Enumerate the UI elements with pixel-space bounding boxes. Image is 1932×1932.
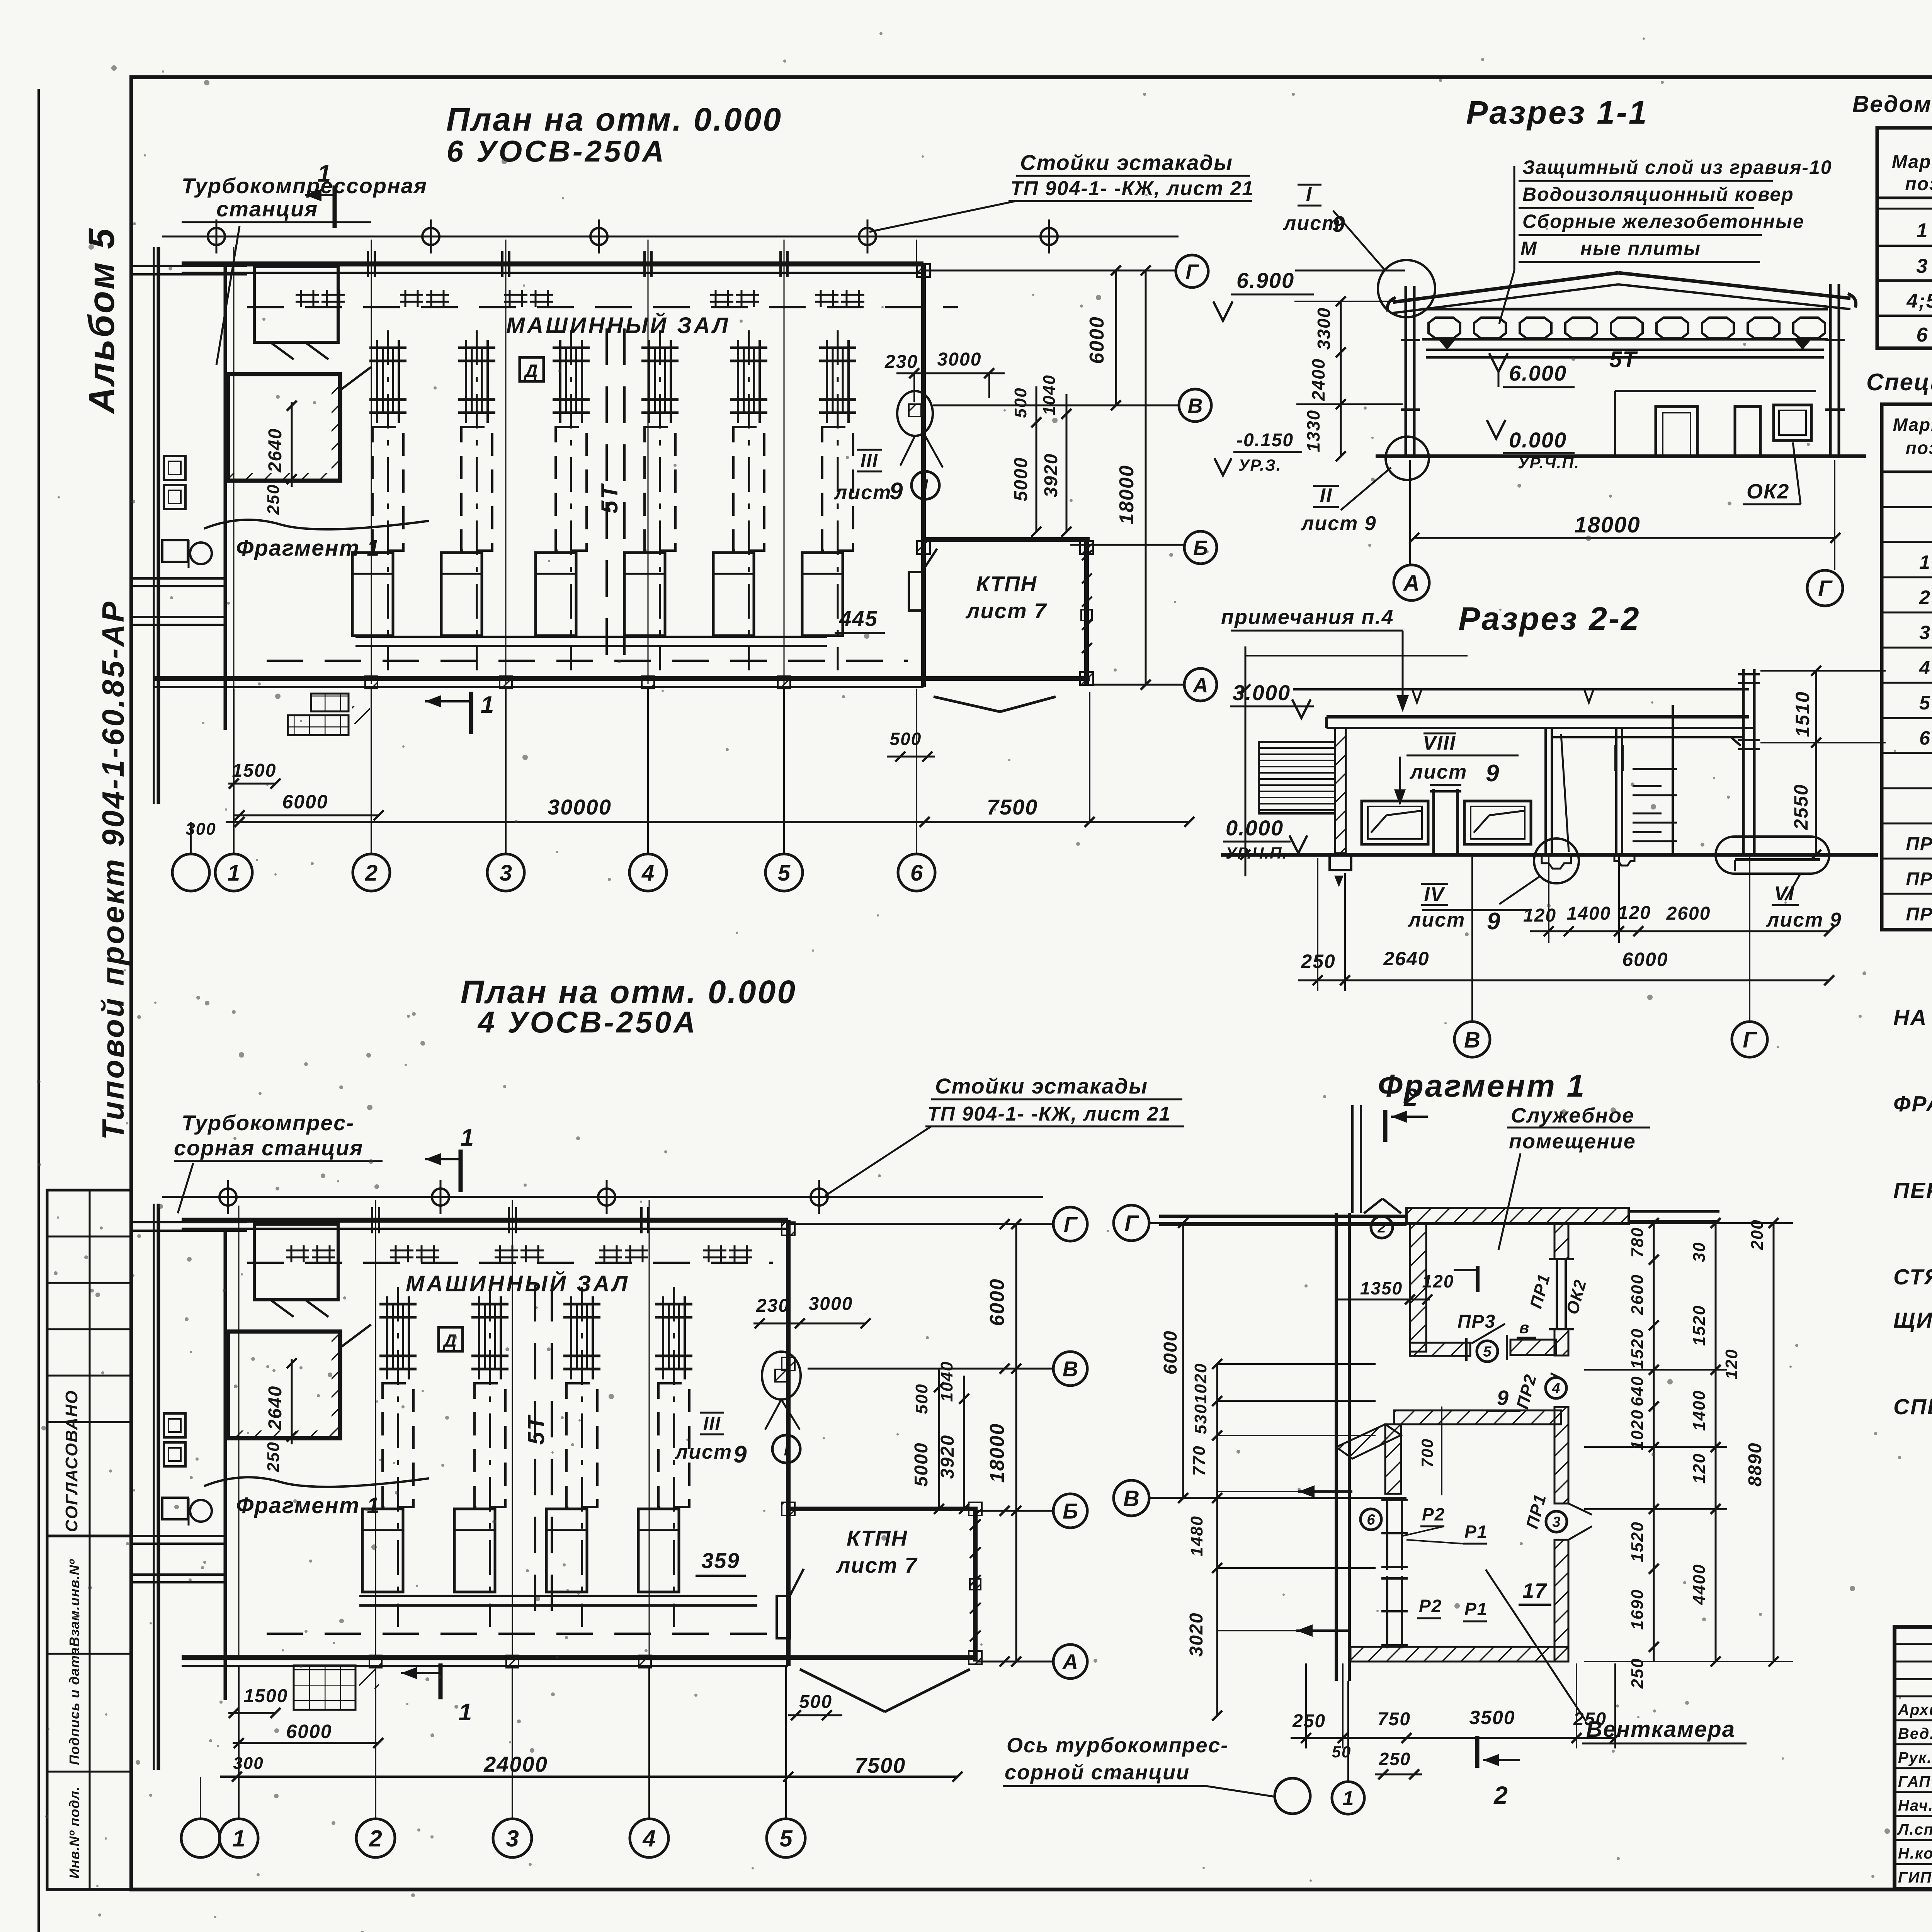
svg-text:СПЕЦИФИКАЦИИ НА ЛИСТЕ 5.: СПЕЦИФИКАЦИИ НА ЛИСТЕ 5. — [1893, 1395, 1932, 1419]
svg-text:5000: 5000 — [911, 1442, 932, 1487]
svg-text:1500: 1500 — [244, 1686, 288, 1706]
foundation strip — [359, 1595, 757, 1597]
svg-text:1520: 1520 — [1690, 1305, 1709, 1346]
louver grille — [1259, 742, 1335, 813]
lower room bottom wall — [1350, 1647, 1568, 1662]
svg-text:1: 1 — [1917, 219, 1929, 242]
svg-text:Архит.: Архит. — [1898, 1701, 1932, 1718]
hash marks row — [300, 290, 302, 307]
svg-text:ЩИНОЙ 20 ММ.: ЩИНОЙ 20 ММ. — [1893, 1307, 1932, 1333]
svg-text:3: 3 — [500, 861, 512, 886]
svg-text:Г: Г — [1064, 1212, 1078, 1236]
svg-text:3: 3 — [1917, 255, 1929, 277]
hall right wall — [921, 264, 926, 687]
svg-text:сорная станция: сорная станция — [174, 1136, 363, 1160]
svg-text:лист: лист — [833, 481, 891, 504]
svg-text:1: 1 — [459, 1699, 473, 1726]
svg-text:Л.спец.Т.О.: Л.спец.Т.О. — [1897, 1821, 1932, 1838]
trestle column — [598, 1189, 615, 1206]
signature row — [1895, 1863, 1932, 1865]
svg-text:лист: лист — [1282, 212, 1340, 235]
svg-text:359: 359 — [701, 1548, 740, 1573]
svg-text:2600: 2600 — [1628, 1274, 1647, 1315]
svg-text:1040: 1040 — [937, 1361, 956, 1402]
svg-text:Фрагмент 1: Фрагмент 1 — [236, 1493, 380, 1518]
girder opening — [1748, 318, 1779, 338]
svg-text:поз.: поз. — [1906, 438, 1932, 458]
svg-text:А: А — [1192, 673, 1208, 697]
roof slab — [1327, 715, 1749, 719]
svg-text:120: 120 — [1422, 1271, 1454, 1291]
crane beam — [1426, 349, 1824, 351]
svg-text:КТПН: КТПН — [976, 571, 1037, 596]
machine unit — [397, 1287, 399, 1627]
svg-text:ПР2: ПР2 — [1906, 869, 1932, 889]
svg-text:5: 5 — [778, 861, 791, 886]
svg-text:6.900: 6.900 — [1236, 268, 1294, 293]
interior partition top — [1615, 390, 1816, 392]
lower room top-left diagonal wall — [1336, 1424, 1401, 1459]
paper edge left line — [37, 89, 40, 1932]
left wall (fragment) — [1335, 1213, 1338, 1681]
svg-text:УР.Ч.П.: УР.Ч.П. — [1518, 454, 1580, 472]
svg-text:9: 9 — [1486, 760, 1500, 787]
svg-text:17: 17 — [1522, 1579, 1548, 1602]
trestle column — [208, 228, 225, 245]
svg-text:Стойки эстакады: Стойки эстакады — [1020, 150, 1233, 175]
svg-text:6000: 6000 — [282, 791, 328, 813]
svg-text:18000: 18000 — [986, 1423, 1009, 1483]
svg-text:лист 9: лист 9 — [1765, 909, 1842, 931]
svg-text:В: В — [1464, 1027, 1480, 1053]
extension lines right — [1584, 1222, 1793, 1224]
svg-text:СТЯЖКУ ИЗ ЦЕМЕНТНО-ПЕСЧАНОГО: СТЯЖКУ ИЗ ЦЕМЕНТНО-ПЕСЧАНОГО РАСТВОРА МА… — [1893, 1265, 1932, 1289]
svg-text:Р1: Р1 — [1464, 1599, 1488, 1619]
svg-text:500: 500 — [799, 1692, 832, 1712]
svg-text:лист 9: лист 9 — [1300, 512, 1377, 535]
svg-text:М: М — [1520, 238, 1537, 259]
bottom margin table — [47, 1536, 131, 1889]
grid bubbles right (top plan) — [1176, 255, 1208, 287]
wc fixtures — [162, 1498, 188, 1519]
grid line Г (fragment) — [1150, 1222, 1719, 1224]
svg-text:4: 4 — [1919, 657, 1931, 679]
doors and window OK2 — [1656, 406, 1697, 456]
machine unit — [659, 330, 661, 670]
svg-text:1: 1 — [461, 1124, 474, 1151]
svg-text:ПЕРЕГОРОДКАХ ДАНА НА ЛИСТЕ: ПЕРЕГОРОДКАХ ДАНА НА ЛИСТЕ 9. — [1893, 1178, 1932, 1203]
roof slopes — [1393, 273, 1618, 302]
annex upper room — [254, 267, 338, 342]
svg-text:IV: IV — [1424, 883, 1445, 906]
steel frames P2 P1 lower pair — [1386, 1576, 1388, 1648]
note leader — [1514, 166, 1515, 270]
svg-text:445: 445 — [839, 606, 878, 631]
svg-text:3300: 3300 — [1314, 307, 1334, 350]
top wall (fragment) — [1406, 1208, 1629, 1224]
title block outer — [1895, 1627, 1932, 1889]
svg-text:ные плиты: ные плиты — [1580, 238, 1701, 259]
grid bubbles right (bottom plan) — [1053, 1207, 1087, 1241]
fragment brace (top plan) — [204, 520, 429, 529]
svg-text:3: 3 — [506, 1826, 519, 1852]
window W1 — [1362, 801, 1428, 844]
hall dashed line — [247, 1262, 773, 1264]
svg-text:1: 1 — [232, 1826, 245, 1852]
eaves — [1388, 298, 1396, 311]
right dim chain inner — [1653, 1223, 1655, 1662]
svg-text:поз: поз — [1905, 174, 1932, 194]
upper room bottom wall left — [1410, 1343, 1470, 1356]
axis bubble (оси) — [1275, 1778, 1310, 1814]
svg-text:2: 2 — [1377, 1220, 1386, 1236]
upper room left wall — [1410, 1224, 1426, 1352]
top wall (bottom plan) — [182, 1218, 788, 1223]
svg-text:1350: 1350 — [1360, 1278, 1403, 1298]
svg-text:Водоизоляционный ковер: Водоизоляционный ковер — [1522, 184, 1794, 205]
wc fixtures — [162, 540, 188, 562]
left hatched wall — [1335, 728, 1346, 853]
girder opening — [1793, 318, 1825, 338]
trestle column — [219, 1189, 236, 1206]
svg-text:Г: Г — [1185, 260, 1199, 283]
annex mid wall (bottom plan) — [224, 1231, 227, 1700]
svg-text:Н.контр.: Н.контр. — [1898, 1845, 1932, 1862]
left dim chain (fragment) — [1216, 1364, 1218, 1716]
svg-text:Сборные железобетонные: Сборные железобетонные — [1522, 211, 1804, 232]
section flag 2 bottom — [1475, 1736, 1480, 1768]
svg-text:I: I — [1306, 183, 1312, 206]
svg-text:ГАП: ГАП — [1898, 1773, 1931, 1790]
svg-text:ТП 904-1- -КЖ, лист 21: ТП 904-1- -КЖ, лист 21 — [927, 1103, 1171, 1125]
right dim chain 1510 2550 — [1815, 671, 1817, 855]
grid line Б — [978, 1510, 1053, 1512]
svg-text:VIII: VIII — [1423, 732, 1456, 754]
svg-text:Служебное: Служебное — [1511, 1104, 1634, 1127]
grid bubble Г — [1834, 538, 1835, 570]
svg-text:примечания п.4: примечания п.4 — [1221, 605, 1394, 629]
svg-text:3: 3 — [1552, 1514, 1560, 1531]
svg-text:0.000: 0.000 — [1509, 428, 1567, 452]
svg-text:1480: 1480 — [1187, 1515, 1206, 1556]
signature row — [1895, 1743, 1932, 1745]
KTPN right wall hatch ticks (bottom) — [970, 1519, 981, 1530]
annex fixtures — [164, 456, 185, 480]
annex hatched room — [228, 374, 340, 481]
svg-text:30000: 30000 — [548, 795, 612, 819]
title block signature grid — [1895, 1643, 1932, 1645]
right wall parapet — [1742, 669, 1745, 853]
extension verticals to bubbles (bottom plan) — [238, 1667, 240, 1818]
svg-text:Рук.гр.: Рук.гр. — [1898, 1749, 1932, 1766]
machine unit — [837, 330, 839, 670]
svg-text:сорной станции: сорной станции — [1005, 1761, 1190, 1784]
svg-text:6: 6 — [1367, 1512, 1375, 1528]
grid line Г (bottom plan) — [788, 1223, 1053, 1225]
svg-text:5Т: 5Т — [1609, 347, 1638, 372]
detail balloon on B row (bottom plan) — [762, 1352, 801, 1400]
column bubbles (top plan) — [172, 854, 209, 891]
svg-text:6.000: 6.000 — [1509, 361, 1567, 385]
svg-text:2: 2 — [369, 1826, 382, 1852]
svg-text:3920: 3920 — [1041, 453, 1061, 498]
svg-text:МАШИННЫЙ ЗАЛ: МАШИННЫЙ ЗАЛ — [406, 1271, 630, 1296]
annex hatched room — [228, 1332, 340, 1438]
svg-text:1020: 1020 — [1628, 1409, 1647, 1450]
svg-text:ПР3: ПР3 — [1906, 904, 1932, 925]
svg-text:120: 120 — [1722, 1349, 1741, 1379]
signature row — [1895, 1815, 1932, 1817]
left annex corridor lines — [131, 265, 247, 267]
svg-text:5000: 5000 — [1011, 457, 1031, 502]
svg-text:250: 250 — [1379, 1749, 1411, 1769]
svg-text:1400: 1400 — [1567, 903, 1611, 924]
signature row — [1895, 1791, 1932, 1793]
svg-text:Р1: Р1 — [1464, 1522, 1488, 1542]
svg-text:9: 9 — [889, 478, 903, 505]
girder opening — [1611, 318, 1643, 338]
girder opening — [1565, 318, 1597, 338]
svg-text:24000: 24000 — [483, 1752, 548, 1776]
partition 2 — [1615, 728, 1617, 853]
extension verticals to bubbles — [233, 689, 235, 854]
stair hatch block — [311, 694, 349, 711]
lower room right wall lower part — [1554, 1540, 1568, 1662]
leader венткамера — [1486, 1570, 1586, 1721]
hall dashed service line — [247, 306, 958, 308]
svg-text:3920: 3920 — [937, 1435, 958, 1479]
svg-text:770: 770 — [1190, 1445, 1209, 1476]
svg-text:ГИП: ГИП — [1898, 1869, 1932, 1886]
partition 120 — [1544, 728, 1547, 853]
section flag 1 bottom (top plan) — [469, 692, 473, 734]
svg-text:лист: лист — [674, 1441, 732, 1463]
section flag 1 bottom (bottom plan) — [439, 1663, 443, 1699]
svg-text:СОГЛАСОВАНО: СОГЛАСОВАНО — [62, 1390, 81, 1532]
svg-text:6: 6 — [910, 861, 923, 886]
grid bubble Г (2-2) — [1749, 857, 1750, 1021]
svg-text:3020: 3020 — [1186, 1612, 1207, 1657]
svg-text:1500: 1500 — [232, 760, 277, 781]
machine unit — [476, 330, 478, 670]
column axis lines (top plan) — [371, 240, 372, 684]
right dim chain middle — [1715, 1223, 1717, 1662]
window W2 — [1464, 801, 1531, 844]
svg-text:250: 250 — [1292, 1711, 1326, 1731]
svg-text:1330: 1330 — [1303, 410, 1323, 452]
svg-text:лист: лист — [1409, 761, 1467, 783]
right dim chain 6000/18000 — [1115, 270, 1117, 405]
svg-text:1690: 1690 — [1628, 1589, 1647, 1630]
foundation strip — [355, 636, 827, 638]
girder opening — [1702, 318, 1734, 338]
svg-text:1040: 1040 — [1040, 374, 1059, 415]
svg-text:6000: 6000 — [1160, 1330, 1181, 1375]
left extension line — [1245, 646, 1247, 876]
signature row — [1895, 1719, 1932, 1721]
girder opening — [1429, 318, 1460, 338]
column bubbles (bottom plan) — [181, 1819, 220, 1857]
door — [1432, 789, 1435, 853]
svg-text:УР.З.: УР.З. — [1238, 456, 1282, 474]
crane rail dashed 5T — [605, 328, 608, 676]
svg-text:1: 1 — [318, 160, 332, 187]
girder opening — [1474, 318, 1506, 338]
svg-text:700: 700 — [1418, 1438, 1436, 1468]
circled I (bottom plan) — [772, 1435, 800, 1463]
svg-text:230: 230 — [756, 1296, 789, 1316]
symbol Д — [439, 1327, 463, 1351]
svg-text:250: 250 — [264, 484, 283, 515]
svg-text:2550: 2550 — [1790, 784, 1812, 830]
svg-text:Защитный слой из гравия-10: Защитный слой из гравия-10 — [1522, 156, 1832, 178]
pipe above wall — [1351, 1105, 1354, 1213]
svg-text:1520: 1520 — [1628, 1521, 1647, 1562]
svg-text:5: 5 — [1919, 692, 1931, 714]
svg-text:Марка: Марка — [1892, 152, 1932, 172]
svg-text:2640: 2640 — [1383, 948, 1429, 969]
svg-text:II: II — [1320, 485, 1333, 507]
svg-text:ПР1: ПР1 — [1906, 834, 1932, 854]
svg-text:4: 4 — [642, 1826, 655, 1852]
svg-text:Д: Д — [442, 1330, 457, 1350]
svg-text:6000: 6000 — [1086, 316, 1108, 364]
bottom wall row A — [155, 676, 923, 681]
svg-text:4: 4 — [641, 861, 654, 886]
svg-text:3000: 3000 — [809, 1294, 853, 1314]
column bubble 2 with gable — [1364, 1199, 1383, 1213]
trestle column — [422, 228, 439, 245]
detail circle II — [1386, 437, 1429, 480]
svg-text:0.000: 0.000 — [1226, 816, 1284, 840]
trestle column — [1041, 228, 1058, 245]
section mark 2 small — [1476, 1266, 1480, 1292]
svg-text:Ведомость проемов ворот и д: Ведомость проемов ворот и дверей — [1852, 91, 1932, 117]
svg-text:6000: 6000 — [286, 1721, 332, 1742]
parapet top line — [1293, 688, 1749, 690]
KTPN door — [909, 572, 922, 611]
left column — [1405, 286, 1407, 458]
annex corridor lines — [131, 1221, 247, 1223]
hall right wall (bottom plan) — [786, 1220, 791, 1666]
svg-text:5: 5 — [1483, 1344, 1492, 1360]
machine unit — [748, 330, 750, 670]
hall dashed line bottom — [267, 660, 908, 662]
svg-text:Подпись и дата: Подпись и дата — [66, 1647, 82, 1765]
annex mid wall — [224, 267, 227, 730]
floor line — [1221, 853, 1878, 857]
svg-text:Г: Г — [1124, 1211, 1139, 1236]
svg-text:Инв.Nº подл.: Инв.Nº подл. — [66, 1786, 82, 1879]
trestle column — [590, 228, 607, 245]
svg-text:Типовой проект 904-1-60.85-А: Типовой проект 904-1-60.85-АР — [96, 600, 130, 1140]
svg-text:ТП 904-1- -КЖ, лист 21: ТП 904-1- -КЖ, лист 21 — [1010, 177, 1254, 200]
svg-text:1520: 1520 — [1628, 1328, 1647, 1369]
trestle column — [432, 1189, 449, 1206]
svg-text:120: 120 — [1618, 903, 1651, 923]
annex fixtures — [164, 1413, 185, 1437]
svg-text:500: 500 — [912, 1383, 931, 1414]
svg-text:6 УОСВ-250А: 6 УОСВ-250А — [447, 134, 667, 168]
crane rail dashed 5T — [534, 1285, 536, 1623]
svg-text:Нач.осп-1: Нач.осп-1 — [1898, 1797, 1932, 1814]
svg-text:230: 230 — [884, 352, 918, 372]
left inner wall upper part — [1385, 1424, 1401, 1494]
svg-text:VI: VI — [1774, 883, 1794, 905]
machine unit — [570, 330, 572, 670]
svg-text:3000: 3000 — [937, 349, 982, 370]
KTPN walls (top plan) — [923, 537, 1090, 542]
svg-text:Стойки эстакады: Стойки эстакады — [935, 1074, 1148, 1098]
svg-text:Г: Г — [1743, 1027, 1757, 1053]
column bubble 1 (fragment) — [1332, 1782, 1364, 1814]
svg-text:30: 30 — [1690, 1242, 1709, 1262]
svg-text:9: 9 — [733, 1441, 747, 1468]
svg-text:-0.150: -0.150 — [1236, 430, 1294, 451]
svg-text:III: III — [703, 1413, 721, 1434]
svg-text:помещение: помещение — [1509, 1130, 1636, 1153]
hall dashed line bottom — [267, 1633, 769, 1635]
svg-text:300: 300 — [233, 1754, 264, 1773]
circled I (top plan) — [912, 471, 939, 499]
svg-text:Альбом 5: Альбом 5 — [81, 227, 122, 414]
stair hatch block (bottom plan) — [294, 1665, 355, 1710]
top wall — [182, 262, 923, 267]
svg-text:4: 4 — [1551, 1381, 1560, 1397]
svg-text:Спецификация перемычек и эл: Спецификация перемычек и элементов запол… — [1866, 369, 1932, 396]
svg-text:120: 120 — [1523, 905, 1556, 926]
svg-text:I: I — [784, 1439, 789, 1459]
svg-text:В: В — [1123, 1486, 1139, 1511]
floor notches — [1542, 855, 1571, 869]
lower room right wall upper part — [1554, 1407, 1568, 1503]
svg-text:2640: 2640 — [265, 1386, 286, 1430]
svg-text:I: I — [923, 476, 929, 496]
detail circle IV — [1534, 838, 1579, 883]
svg-text:1: 1 — [1919, 551, 1931, 573]
svg-text:Р2: Р2 — [1419, 1596, 1442, 1616]
svg-text:2: 2 — [1493, 1781, 1509, 1809]
left dim chain — [1340, 301, 1342, 456]
svg-text:5Т: 5Т — [523, 1415, 549, 1445]
svg-text:1400: 1400 — [1690, 1390, 1709, 1431]
signature row — [1895, 1839, 1932, 1841]
circled 5 — [1477, 1341, 1498, 1362]
svg-text:А: А — [1403, 571, 1420, 596]
svg-text:МАШИННЫЙ ЗАЛ: МАШИННЫЙ ЗАЛ — [506, 313, 730, 338]
machine unit — [489, 1287, 491, 1627]
right dim chain 6000/18000 (bottom plan) — [1015, 1224, 1017, 1662]
svg-text:III: III — [861, 451, 878, 471]
trestle line (bottom plan) — [162, 1196, 1043, 1198]
svg-text:5: 5 — [779, 1826, 793, 1852]
grid line Г — [923, 270, 1176, 272]
KTPN door — [777, 1596, 790, 1638]
svg-text:2: 2 — [365, 861, 378, 886]
svg-text:2400: 2400 — [1308, 358, 1328, 401]
door leaf — [1561, 734, 1569, 852]
svg-text:2600: 2600 — [1666, 903, 1711, 924]
svg-text:лист 7: лист 7 — [965, 599, 1048, 623]
grid line B — [808, 1368, 1053, 1370]
svg-text:в: в — [1519, 1318, 1530, 1337]
svg-text:3500: 3500 — [1469, 1707, 1515, 1728]
svg-text:530: 530 — [1191, 1403, 1210, 1434]
bottom wall row A (bottom plan) — [182, 1655, 788, 1660]
leader arrows into plan — [1217, 1363, 1376, 1365]
svg-text:1020: 1020 — [1191, 1363, 1210, 1404]
ramp V below KTPN — [934, 697, 1000, 712]
